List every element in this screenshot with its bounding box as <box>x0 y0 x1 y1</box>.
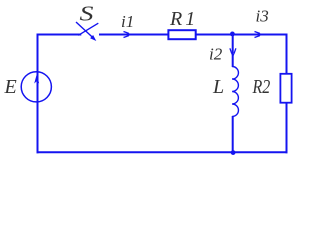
current arrow i2 <box>231 54 234 58</box>
inductor L coil <box>232 67 238 117</box>
resistor R1 <box>168 30 195 39</box>
switch S actuation arrow <box>76 22 93 38</box>
svg-text:i2: i2 <box>209 45 223 64</box>
svg-text:i3: i3 <box>256 7 269 26</box>
svg-text:L: L <box>212 76 224 98</box>
wire: top horizontal segment switch to R1 <box>99 34 168 36</box>
switch S blade <box>78 23 98 35</box>
svg-text:R1: R1 <box>169 8 198 30</box>
svg-text:S: S <box>80 3 94 26</box>
node junction bottom <box>231 150 236 155</box>
wire: right vertical above R2 <box>286 34 288 74</box>
current arrow i1 <box>128 33 132 36</box>
wire: top horizontal segment R1 to top-right corner <box>197 34 288 36</box>
voltage source EMF arrow (points up) <box>34 74 39 83</box>
svg-text:E: E <box>4 76 17 98</box>
wire: right vertical below R2 <box>286 103 288 153</box>
current arrow i3 <box>259 33 263 36</box>
wire: top-left horizontal segment to switch <box>37 34 82 36</box>
voltage source E <box>21 72 51 102</box>
resistor R2 <box>280 74 291 103</box>
wire: left vertical wire <box>37 34 39 154</box>
wire: middle branch vertical above inductor <box>232 35 234 68</box>
svg-text:i1: i1 <box>121 12 134 31</box>
svg-text:R2: R2 <box>252 75 271 97</box>
node junction top <box>230 32 235 37</box>
wire: middle branch vertical below inductor <box>232 116 234 153</box>
wire: bottom horizontal wire <box>37 151 288 153</box>
